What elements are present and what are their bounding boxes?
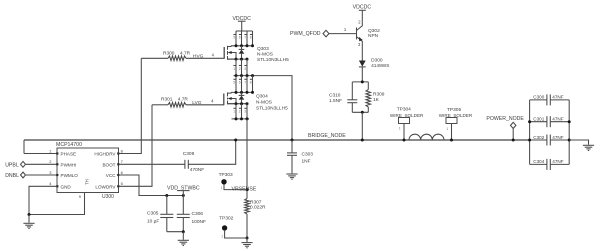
svg-text:UPBL: UPBL	[5, 162, 19, 168]
svg-text:1: 1	[446, 127, 448, 131]
svg-text:C301: C301	[533, 117, 544, 122]
svg-text:100NF: 100NF	[192, 219, 206, 225]
svg-text:1: 1	[233, 67, 235, 71]
svg-text:TP304: TP304	[397, 107, 411, 113]
svg-text:C303: C303	[302, 151, 314, 157]
svg-text:6: 6	[239, 80, 241, 84]
svg-text:Q304: Q304	[256, 94, 268, 100]
svg-text:TH: TH	[85, 179, 90, 185]
svg-text:7: 7	[244, 35, 246, 39]
svg-text:TP302: TP302	[219, 216, 233, 222]
svg-text:VDCDC: VDCDC	[353, 4, 372, 10]
svg-text:5: 5	[233, 35, 235, 39]
svg-text:STL10N3LLH5: STL10N3LLH5	[256, 106, 288, 112]
svg-text:DNBL: DNBL	[5, 173, 19, 179]
svg-text:C309: C309	[183, 151, 195, 157]
svg-text:MCP14700: MCP14700	[56, 142, 82, 148]
svg-text:GND: GND	[61, 184, 72, 189]
svg-text:3: 3	[244, 110, 246, 114]
svg-text:1K: 1K	[373, 97, 380, 103]
svg-text:470NF: 470NF	[190, 167, 204, 173]
svg-text:47NF: 47NF	[552, 135, 563, 140]
svg-text:C310: C310	[329, 93, 341, 99]
svg-text:1: 1	[399, 127, 401, 131]
svg-text:8: 8	[250, 80, 252, 84]
svg-text:Q303: Q303	[257, 46, 269, 52]
svg-text:N-MOS: N-MOS	[256, 100, 272, 106]
svg-text:PWMHI: PWMHI	[61, 162, 77, 167]
svg-text:PHASE: PHASE	[61, 152, 77, 157]
svg-text:HVG: HVG	[193, 54, 204, 60]
svg-text:R301: R301	[161, 97, 173, 103]
svg-text:1NF: 1NF	[302, 159, 311, 165]
svg-text:C302: C302	[533, 135, 544, 140]
svg-text:NPN: NPN	[368, 33, 379, 39]
svg-text:PWM_QFOD: PWM_QFOD	[290, 31, 321, 37]
svg-text:R300: R300	[163, 51, 175, 57]
svg-text:N-MOS: N-MOS	[257, 52, 273, 58]
svg-text:LOWDRV: LOWDRV	[95, 184, 116, 189]
svg-text:Q302: Q302	[368, 28, 380, 34]
svg-text:VRSENSE: VRSENSE	[232, 187, 257, 193]
svg-text:TP305: TP305	[447, 107, 461, 113]
svg-text:D300: D300	[371, 58, 383, 64]
svg-text:2: 2	[239, 110, 241, 114]
svg-text:C306: C306	[192, 211, 204, 217]
svg-text:TP303: TP303	[219, 172, 233, 178]
svg-text:BOOT: BOOT	[102, 162, 115, 167]
svg-text:4.7R: 4.7R	[180, 51, 191, 57]
svg-text:0.022R: 0.022R	[250, 205, 266, 211]
svg-text:1: 1	[221, 235, 223, 239]
svg-text:BRIDGE_NODE: BRIDGE_NODE	[308, 133, 346, 139]
svg-text:4148WS: 4148WS	[371, 63, 389, 69]
svg-text:HIGHDRV: HIGHDRV	[94, 152, 116, 157]
svg-text:47NF: 47NF	[552, 159, 563, 164]
svg-text:POWER_NODE: POWER_NODE	[486, 116, 524, 122]
svg-text:6: 6	[239, 35, 241, 39]
svg-text:1: 1	[221, 186, 223, 190]
svg-text:U300: U300	[102, 194, 114, 200]
svg-text:C300: C300	[533, 95, 544, 100]
svg-text:7: 7	[244, 80, 246, 84]
svg-text:STL10N3LLH5: STL10N3LLH5	[257, 57, 289, 63]
svg-text:PWMLO: PWMLO	[61, 173, 79, 178]
svg-text:3: 3	[244, 67, 246, 71]
svg-text:VCC: VCC	[106, 173, 116, 178]
svg-text:8: 8	[250, 35, 252, 39]
svg-text:1.5NF: 1.5NF	[329, 98, 342, 104]
svg-text:C305: C305	[147, 211, 159, 217]
svg-text:R309: R309	[373, 92, 385, 98]
svg-text:47NF: 47NF	[552, 117, 563, 122]
svg-text:R307: R307	[250, 199, 262, 205]
svg-text:1: 1	[233, 110, 235, 114]
svg-text:C304: C304	[533, 159, 544, 164]
svg-text:2: 2	[239, 67, 241, 71]
svg-text:4.7R: 4.7R	[178, 97, 189, 103]
svg-text:10 µF: 10 µF	[147, 219, 159, 225]
svg-text:47NF: 47NF	[552, 95, 563, 100]
svg-text:5: 5	[233, 80, 235, 84]
svg-text:LVG: LVG	[192, 100, 202, 106]
